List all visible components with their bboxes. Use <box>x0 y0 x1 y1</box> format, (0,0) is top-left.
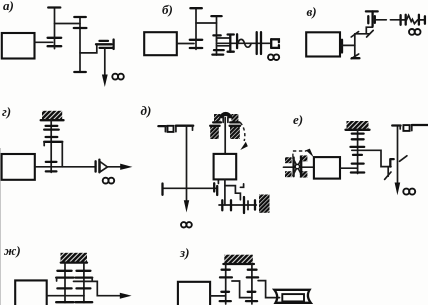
gear bar on shaft II lower <box>214 49 224 51</box>
em clutch cross <box>293 158 302 175</box>
dashed solenoid outline <box>293 151 307 157</box>
svg-text:е): е) <box>293 112 303 127</box>
hatched support top-right <box>231 114 238 122</box>
solenoid dome <box>220 113 232 118</box>
step link between shafts <box>232 281 252 298</box>
bearing bar top shaft I <box>48 6 60 8</box>
em clutch hub circle <box>295 164 299 168</box>
gear bar mid <box>46 136 58 138</box>
hatched bearing bottom-left <box>285 171 292 177</box>
hatched bearing bottom-right <box>300 171 308 177</box>
wire with gap <box>375 19 387 21</box>
svg-text:в): в) <box>307 4 317 19</box>
gear bar <box>221 200 223 210</box>
scan edge artifact <box>0 148 1 305</box>
hatched bearing top-left <box>285 157 292 163</box>
infinity symbol <box>181 222 192 227</box>
right gear bar 2 <box>77 287 91 289</box>
right gear bar 2 <box>248 291 256 293</box>
motor box M2 <box>144 32 177 55</box>
disc clutch double bars <box>256 32 258 54</box>
half nut bracket <box>270 39 272 48</box>
motor wire <box>47 295 84 297</box>
right gear bar 1 <box>77 270 91 272</box>
motor box M4 <box>2 154 35 180</box>
fixed hatched block <box>259 195 270 213</box>
motor box M5 <box>214 154 237 180</box>
left wide gear bar <box>56 276 73 278</box>
infinity symbol <box>403 189 415 195</box>
worm bars at output <box>46 161 57 163</box>
one-way clutch pawl triangle <box>100 162 108 173</box>
left gear bar 2 <box>221 291 229 293</box>
link down to output wire <box>61 142 63 167</box>
gear bar upper <box>352 138 364 140</box>
worm bars at motor wire <box>352 162 364 164</box>
clutch half left <box>229 35 231 52</box>
input wire <box>284 166 314 168</box>
link to drum <box>258 281 279 298</box>
drum inner rect <box>282 294 304 301</box>
spring clutch with zigzag <box>405 15 407 25</box>
motor box M6 <box>314 157 340 179</box>
coupling bar <box>399 15 401 25</box>
left shaft <box>225 264 227 304</box>
shift fork step link <box>225 184 244 200</box>
wire motor to worm <box>177 43 194 45</box>
gear bar small <box>353 154 362 156</box>
wire motor to shaft <box>340 167 358 169</box>
bevel tick a <box>390 159 393 167</box>
motor box M7 <box>15 280 47 305</box>
motor shaft vertical <box>224 118 226 154</box>
hatched support top-left <box>214 114 220 122</box>
wire to spring clutch <box>401 19 406 21</box>
output arrow <box>120 293 132 299</box>
drum pulley outer <box>274 290 311 303</box>
wire shaft I to shaft II <box>196 22 217 24</box>
gear bar <box>230 200 232 210</box>
left shaft <box>64 263 66 303</box>
coupling bar at motor output <box>341 40 343 53</box>
worm gear bars on shaft I <box>48 37 62 39</box>
shaft I vertical <box>54 8 56 49</box>
motor wire <box>210 295 226 297</box>
svg-text:д): д) <box>141 103 152 118</box>
shaft II vertical <box>79 17 81 72</box>
guideway rail left <box>392 124 400 126</box>
base bar right <box>230 121 239 123</box>
wide gear bar <box>351 146 365 148</box>
hanging shaft <box>50 120 52 172</box>
worm gear bars on shaft I <box>190 39 202 41</box>
guideway rail right <box>175 126 177 132</box>
step link to arrow <box>74 281 122 295</box>
shaft II vertical <box>216 16 218 55</box>
frame baseline <box>223 263 254 265</box>
right shaft <box>251 264 253 304</box>
bevel tick right <box>367 30 374 37</box>
slider block <box>168 126 174 132</box>
cross wire <box>163 187 218 189</box>
motor output shaft down <box>224 179 226 205</box>
hatched bearing top-right <box>300 155 308 161</box>
motor box M1 <box>2 33 35 59</box>
bearing bar top shaft I <box>190 7 201 9</box>
gear bar tall <box>243 197 245 213</box>
bearing bar left <box>161 184 163 195</box>
svg-text:ж): ж) <box>4 243 21 258</box>
elastic wave symbol <box>238 39 251 47</box>
motor box M8 <box>178 282 210 305</box>
frame baseline <box>61 261 87 263</box>
bevel tick c <box>385 167 391 180</box>
gear bar upper <box>44 128 59 130</box>
wire motor to bevel shaft <box>342 44 355 46</box>
output arrow right <box>107 166 121 168</box>
svg-text:б): б) <box>162 2 173 17</box>
bearing bar bottom <box>352 57 360 59</box>
vertical output shaft <box>397 126 399 185</box>
gear bar <box>216 186 218 195</box>
left gear bar 1 <box>222 269 230 271</box>
right shaft <box>83 263 85 303</box>
clutch half right <box>236 34 238 48</box>
output wire <box>35 166 96 168</box>
hatched support lower-right <box>230 126 240 139</box>
motor box M3 <box>306 32 340 56</box>
bevel tick b <box>400 156 407 162</box>
riser wire up <box>366 27 372 34</box>
infinity symbol <box>409 29 421 35</box>
infinity symbol <box>112 74 124 80</box>
gear bar on shaft II upper <box>213 34 220 36</box>
feed screw shaft down <box>186 126 188 203</box>
bevel shaft vertical <box>354 34 356 58</box>
fixed frame hatched block <box>224 255 253 264</box>
svg-text:г): г) <box>2 104 11 119</box>
jaw clutch <box>367 16 369 23</box>
dashed swing arc <box>240 123 245 142</box>
right bottom bar <box>246 300 257 302</box>
one-way clutch bars <box>94 161 96 171</box>
fixed frame hatched block <box>347 121 369 130</box>
left bottom bar <box>220 300 231 302</box>
bearing bar top shaft II <box>74 16 86 18</box>
sliding sleeve fork top <box>217 38 230 41</box>
hanging shaft <box>357 130 359 174</box>
wire bevel to riser <box>355 33 370 35</box>
solenoid core ticks <box>223 118 228 123</box>
bearing bar <box>46 125 58 127</box>
left bottom bar <box>56 301 73 303</box>
right bottom bar <box>76 301 93 303</box>
left gear bar 1 <box>57 270 71 272</box>
bearing bar bottom shaft II <box>212 53 223 55</box>
bottom gear wire <box>219 204 256 206</box>
wire shaft I to shaft II <box>55 23 81 25</box>
right wide gear bar <box>76 276 93 278</box>
link up to motor box <box>217 180 219 184</box>
sliding sleeve fork bottom <box>217 45 230 47</box>
fixed frame hatched block <box>42 111 62 120</box>
infinity symbol <box>103 178 115 184</box>
wire motor to worm <box>35 41 53 43</box>
hatched support lower-left <box>210 126 219 139</box>
step link right <box>352 150 391 166</box>
output arrow down <box>104 48 106 76</box>
shaft I vertical <box>195 8 197 49</box>
guideway rail left <box>158 125 165 127</box>
svg-text:з): з) <box>179 245 189 260</box>
bearing bar top shaft II <box>211 15 221 17</box>
slider block <box>403 125 409 131</box>
em clutch plate left <box>292 158 294 177</box>
wide gear bar with link corner <box>44 141 62 143</box>
friction clutch bars <box>96 43 112 45</box>
frame baseline <box>41 119 64 121</box>
bevel tick top <box>351 32 358 37</box>
frame baseline <box>346 129 370 131</box>
infinity symbol <box>268 54 279 60</box>
right gear bar 1 <box>248 269 257 271</box>
wire shaft II to clutch <box>80 44 97 53</box>
svg-text:а): а) <box>3 0 14 13</box>
bearing bar <box>352 132 364 134</box>
base bar left <box>213 121 221 123</box>
fixed frame hatched block <box>61 253 88 263</box>
bevel tick bottom <box>351 54 359 59</box>
clutch pin bar <box>247 201 249 210</box>
right wide gear bar <box>247 276 258 278</box>
output shaft horizontal <box>217 42 270 44</box>
gear bar on shaft II <box>74 27 87 29</box>
solenoid arrow <box>306 149 314 158</box>
support bar lower-right <box>230 125 240 127</box>
em clutch plate right <box>300 158 302 177</box>
gear bar <box>213 183 215 191</box>
guideway rail right <box>411 125 413 131</box>
left wide gear bar <box>220 276 232 278</box>
clutch tick <box>254 200 256 209</box>
left gear bar 2 <box>57 287 71 289</box>
support bar lower-left <box>210 125 219 127</box>
bearing bar bottom shaft II <box>74 71 86 73</box>
